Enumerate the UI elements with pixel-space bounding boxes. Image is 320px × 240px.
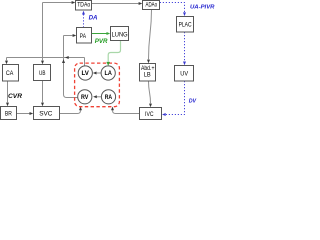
- svg-text:ADAo: ADAo: [146, 1, 158, 8]
- svg-text:PLAC: PLAC: [179, 22, 192, 29]
- svg-text:RV: RV: [81, 95, 88, 101]
- svg-text:SVC: SVC: [39, 111, 52, 118]
- svg-text:LV: LV: [82, 71, 89, 77]
- svg-text:CA: CA: [6, 70, 14, 77]
- svg-text:PVR: PVR: [95, 38, 108, 45]
- svg-text:PA: PA: [80, 33, 87, 40]
- svg-text:Abd.+: Abd.+: [141, 66, 155, 72]
- svg-text:DV: DV: [189, 99, 197, 105]
- svg-text:IVC: IVC: [145, 111, 154, 118]
- svg-text:LUNG: LUNG: [112, 32, 128, 39]
- svg-text:TDAo: TDAo: [77, 2, 90, 9]
- svg-text:DA: DA: [89, 14, 98, 21]
- svg-text:BR: BR: [5, 111, 12, 118]
- svg-text:LA: LA: [105, 71, 113, 77]
- svg-text:UB: UB: [39, 70, 46, 77]
- svg-text:RA: RA: [105, 95, 113, 101]
- svg-text:UA-PIVR: UA-PIVR: [190, 4, 215, 10]
- svg-text:LB: LB: [144, 73, 151, 79]
- svg-text:UV: UV: [180, 71, 188, 78]
- svg-text:CVR: CVR: [8, 93, 22, 100]
